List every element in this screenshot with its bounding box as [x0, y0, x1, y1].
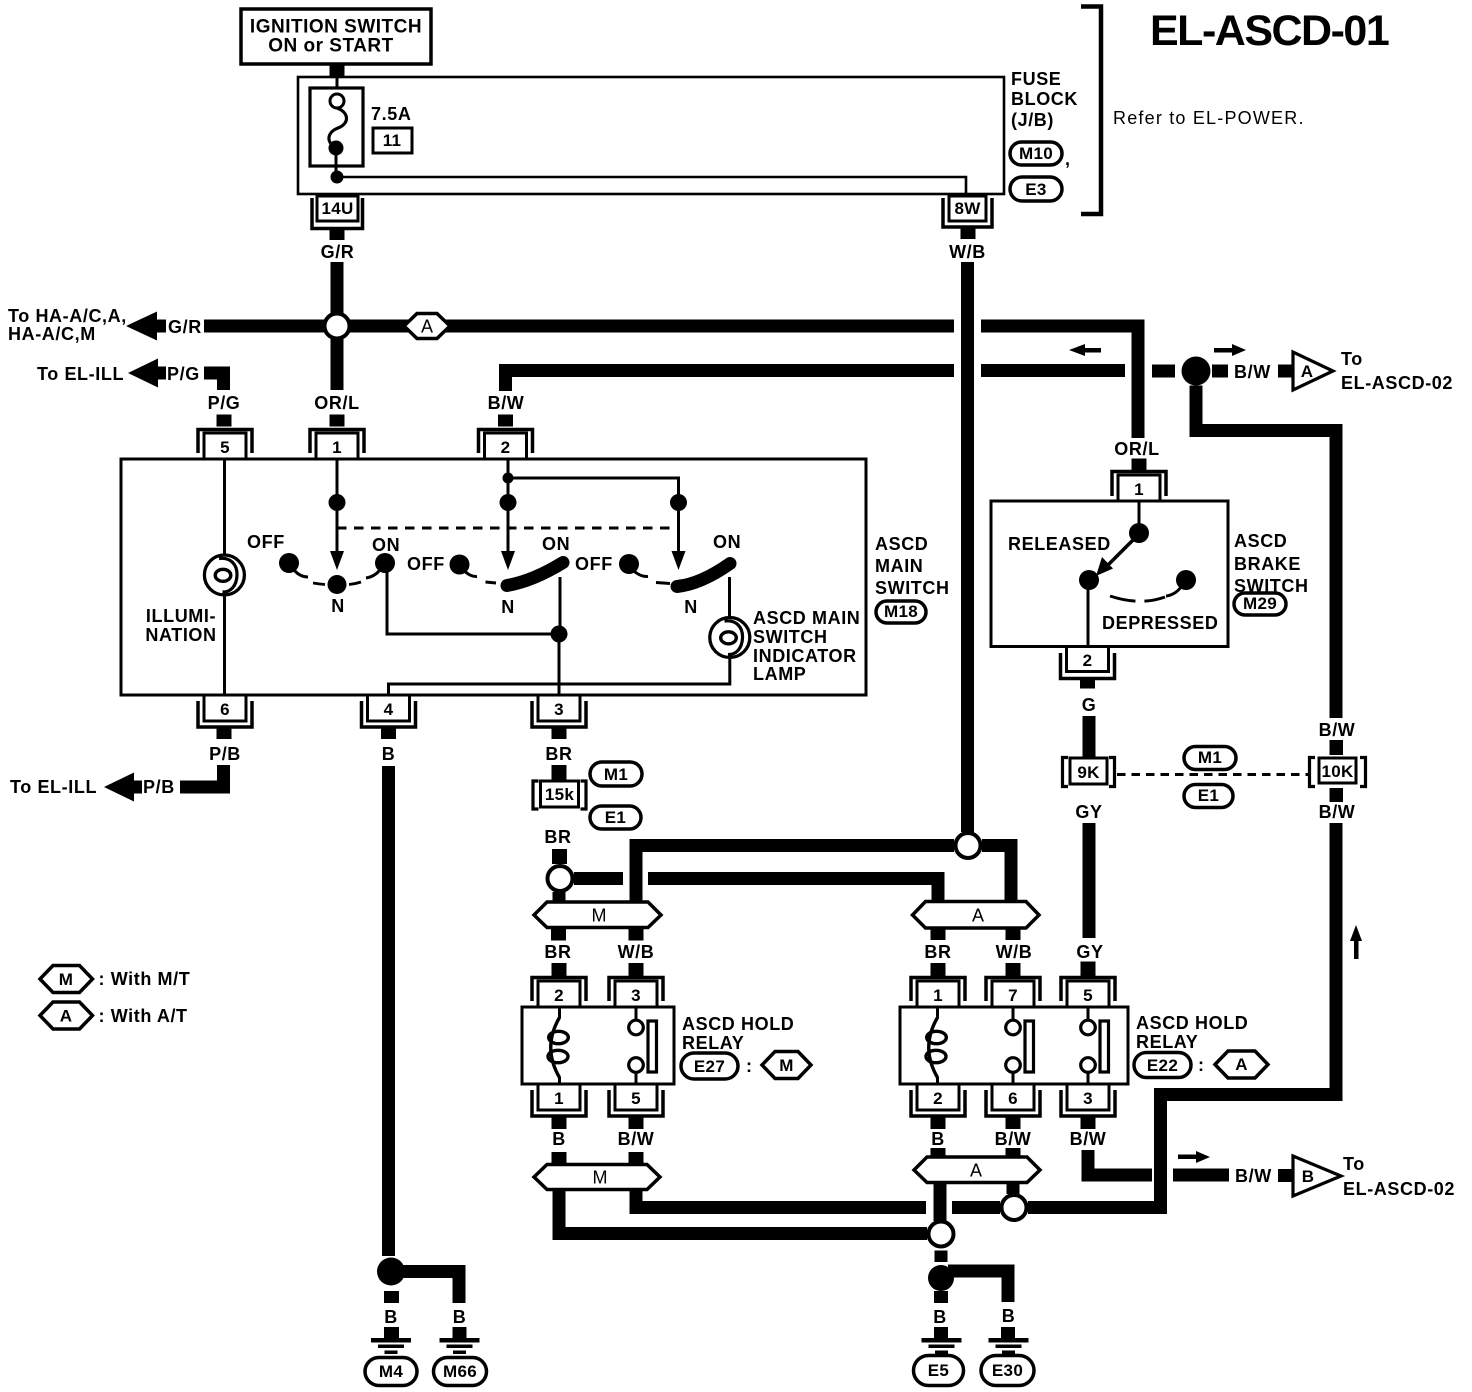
ASCD brake switch box: [991, 501, 1228, 647]
svg-text:BR: BR: [544, 942, 571, 962]
svg-text:3: 3: [631, 986, 641, 1005]
svg-text:G/R: G/R: [321, 242, 355, 262]
dashed line 9K to 10K: [1117, 773, 1308, 776]
svg-text:FUSE: FUSE: [1011, 69, 1061, 89]
connector M1 oval right: [1184, 747, 1236, 770]
arrow right lower: [1178, 1151, 1210, 1163]
connector 9K: [1063, 758, 1115, 787]
label ASCD BRAKE SWITCH: [1234, 531, 1309, 596]
connector M29 oval: [1234, 593, 1286, 615]
connector pin 6 main switch: [198, 695, 252, 739]
svg-text:ASCD: ASCD: [1234, 531, 1287, 551]
svg-text:DEPRESSED: DEPRESSED: [1102, 613, 1218, 633]
ground M4: [371, 1327, 411, 1354]
junction circle G/R: [325, 314, 350, 339]
svg-text:BR: BR: [545, 744, 572, 764]
svg-text:To: To: [1343, 1154, 1365, 1174]
fuse block label: [1011, 69, 1078, 130]
ground E30: [989, 1327, 1029, 1354]
connector E22 oval: [1134, 1053, 1205, 1078]
svg-text:A: A: [1235, 1055, 1248, 1074]
wire BR stub to E27 pin 2: [552, 963, 567, 976]
svg-text:6: 6: [1008, 1089, 1018, 1108]
svg-text:1: 1: [933, 986, 943, 1005]
svg-text:BRAKE: BRAKE: [1234, 554, 1301, 574]
connector M66 oval: [434, 1358, 487, 1386]
svg-text:M29: M29: [1243, 594, 1277, 613]
svg-text:B/W: B/W: [1319, 802, 1356, 822]
wire W/B vertical from 8W: [961, 262, 974, 832]
connector E27 oval: [681, 1053, 753, 1079]
svg-text:W/B: W/B: [949, 242, 986, 262]
connector pin 5 relay E22: [1061, 978, 1115, 1008]
connector pin 5 main switch: [198, 415, 252, 460]
connector E1 oval left: [590, 806, 641, 829]
label To EL-ASCD-02 top: [1341, 349, 1453, 393]
svg-text:E27: E27: [694, 1057, 725, 1076]
svg-text:W/B: W/B: [618, 942, 655, 962]
wire GY down: [1083, 823, 1096, 938]
svg-text:M1: M1: [1198, 748, 1222, 767]
stub below E5 dot: [934, 1291, 948, 1303]
svg-text:B/W: B/W: [1234, 362, 1271, 382]
svg-text:E3: E3: [1025, 180, 1046, 199]
relay E27 coil: [548, 1007, 568, 1084]
wire B/W from A hexagon: [1007, 1183, 1020, 1195]
svg-text:1: 1: [332, 438, 342, 457]
connector pin 2 relay E27: [532, 978, 586, 1008]
svg-text:2: 2: [933, 1089, 943, 1108]
svg-text:E1: E1: [605, 808, 626, 827]
wire GY stub to E22 pin 5: [1081, 962, 1096, 977]
svg-text:HA-A/C,M: HA-A/C,M: [8, 324, 96, 344]
svg-text:B: B: [1302, 1167, 1315, 1186]
svg-text:5: 5: [1083, 986, 1093, 1005]
svg-text:M18: M18: [884, 602, 918, 621]
hexagon A small E22: [1215, 1051, 1268, 1078]
svg-text:E22: E22: [1147, 1056, 1178, 1075]
relay E22 coil: [926, 1007, 946, 1084]
svg-text:EL-ASCD-02: EL-ASCD-02: [1341, 373, 1453, 393]
arrow to EL-ILL P/G: [128, 359, 166, 388]
connector M18 oval: [876, 601, 926, 623]
wire inside fuse block to 8W: [337, 177, 966, 194]
svg-text:ON: ON: [542, 534, 570, 554]
ASCD main switch indicator lamp: [710, 577, 750, 658]
hexagon A lower: [914, 1157, 1040, 1183]
connector pin 1 brake switch: [1112, 459, 1166, 502]
wire BR circle to M hexagon: [553, 892, 566, 902]
svg-text:N: N: [684, 597, 698, 617]
wire branch to E30: [948, 1271, 1008, 1302]
svg-text:SWITCH: SWITCH: [875, 578, 950, 598]
connector 14U: [312, 196, 363, 240]
svg-text:Refer to EL-POWER.: Refer to EL-POWER.: [1113, 108, 1305, 128]
wire B/W stub above A hexagon lower: [1006, 1148, 1021, 1157]
connector 8W: [943, 196, 992, 239]
svg-text:GY: GY: [1076, 942, 1103, 962]
wire W/B stub to E22 pin 7: [1006, 963, 1021, 976]
svg-text:10K: 10K: [1321, 762, 1354, 781]
label illumination: [145, 606, 216, 645]
wire B stub above A hexagon lower: [931, 1148, 946, 1157]
svg-text::: :: [746, 1056, 753, 1076]
legend hexagon M: [40, 966, 93, 993]
connector pin 2 main switch: [479, 415, 533, 460]
svg-text:A: A: [972, 906, 984, 926]
wire stub to A triangle: [1278, 365, 1293, 378]
svg-text::: :: [1198, 1055, 1205, 1075]
svg-text:G: G: [1082, 695, 1097, 715]
dashed link line: [337, 527, 679, 530]
wire W/B stub to E27 pin 3: [629, 963, 644, 976]
svg-text:EL-ASCD-02: EL-ASCD-02: [1343, 1179, 1455, 1199]
switch 1 common wire: [329, 459, 346, 570]
svg-text:7: 7: [1008, 986, 1018, 1005]
svg-text:OFF: OFF: [407, 554, 445, 574]
svg-text:To EL-ILL: To EL-ILL: [10, 777, 97, 797]
svg-text:M: M: [59, 970, 73, 989]
ground E5: [922, 1327, 962, 1354]
svg-text:OFF: OFF: [247, 532, 285, 552]
wire G to 9K: [1083, 716, 1096, 757]
connector pin 1 main switch: [310, 415, 364, 460]
connector pin 3 relay E27: [609, 978, 663, 1008]
svg-text:B: B: [552, 1129, 566, 1149]
svg-text:14U: 14U: [321, 199, 353, 218]
svg-text:A: A: [1301, 362, 1314, 381]
svg-text:M: M: [592, 906, 607, 926]
svg-text:M4: M4: [379, 1362, 403, 1381]
svg-text:SWITCH: SWITCH: [753, 627, 828, 647]
connector pin 7 relay E22: [986, 978, 1040, 1008]
svg-text:: With M/T: : With M/T: [99, 969, 191, 989]
connector 15k: [533, 781, 586, 809]
svg-text:5: 5: [631, 1089, 641, 1108]
wire B from A hexagon: [934, 1183, 947, 1222]
svg-text:9K: 9K: [1077, 763, 1100, 782]
svg-text:8W: 8W: [954, 199, 981, 218]
svg-text:RELAY: RELAY: [682, 1033, 744, 1053]
wire ignition to fuse block: [330, 64, 345, 76]
fuse 7.5A box: [310, 77, 411, 172]
wire switch1 ON to junction: [387, 568, 552, 634]
switch 2 OFF contact: [407, 554, 477, 577]
svg-text:7.5A: 7.5A: [371, 104, 411, 124]
wire W/B stub below M hexagon: [629, 928, 644, 941]
junction circle B lower: [929, 1222, 954, 1247]
svg-text:BR: BR: [544, 827, 571, 847]
arrow to HA-A/C: [126, 312, 166, 341]
triangle A to EL-ASCD-02: [1293, 352, 1333, 390]
svg-text:To HA-A/C,A,: To HA-A/C,A,: [8, 306, 127, 326]
label ASCD HOLD RELAY E27: [682, 1014, 794, 1053]
junction dot B E5: [928, 1265, 954, 1291]
triangle B to EL-ASCD-02: [1293, 1156, 1341, 1196]
svg-text:P/B: P/B: [143, 777, 175, 797]
fuse number 11 box: [373, 128, 412, 153]
svg-text:ASCD HOLD: ASCD HOLD: [682, 1014, 794, 1034]
connector 10K: [1310, 740, 1366, 802]
svg-text:1: 1: [1134, 480, 1144, 499]
svg-text:RELEASED: RELEASED: [1008, 534, 1111, 554]
connector pin 1 relay E22: [911, 978, 965, 1008]
svg-text:A: A: [421, 317, 433, 337]
switch 3 OFF contact: [575, 554, 648, 577]
hexagon A on G/R wire: [404, 314, 450, 339]
label To EL-ASCD-02 bottom: [1343, 1154, 1455, 1199]
svg-text:B/W: B/W: [488, 393, 525, 413]
junction dot B/W: [1182, 357, 1211, 386]
svg-text:M: M: [779, 1056, 793, 1075]
svg-text:OFF: OFF: [575, 554, 613, 574]
wire W/B stub below A hexagon: [1006, 928, 1021, 940]
svg-text:B: B: [933, 1307, 947, 1327]
relay E27 contact: [629, 1007, 657, 1084]
svg-text:B/W: B/W: [1070, 1129, 1107, 1149]
relay E27 box: [522, 1007, 674, 1084]
wire OR/L corner down to brake switch: [1138, 326, 1145, 438]
svg-text:G/R: G/R: [168, 317, 202, 337]
title EL-ASCD-01: [1150, 7, 1389, 55]
brake switch common contact: [1129, 501, 1149, 543]
label ASCD MAIN SWITCH: [875, 534, 950, 598]
switch 3 N and wiper ON: [656, 532, 741, 617]
junction dot B M4: [377, 1258, 405, 1286]
connector M1 oval left: [590, 762, 642, 786]
relay E22 box: [900, 1007, 1128, 1084]
switch 1 OFF contact: [247, 532, 308, 577]
svg-text:IGNITION SWITCH: IGNITION SWITCH: [250, 17, 422, 38]
switch 1 ON contact: [366, 535, 400, 578]
switch 2 N and wiper ON: [486, 534, 571, 617]
svg-text:To: To: [1341, 349, 1363, 369]
svg-text:P/G: P/G: [167, 364, 200, 384]
svg-text:E30: E30: [992, 1361, 1023, 1380]
wire B/W stub above M hexagon lower: [629, 1152, 644, 1165]
wire B from M hexagon: [559, 1190, 927, 1234]
connector E30 oval: [981, 1356, 1034, 1386]
svg-text:2: 2: [501, 438, 511, 457]
connector pin 3 main switch: [532, 695, 586, 739]
hexagon A upper: [913, 902, 1040, 929]
wire P/B to EL-ILL: [180, 765, 230, 787]
connector M10 oval: [1010, 142, 1071, 169]
svg-text:B/W: B/W: [618, 1129, 655, 1149]
svg-text:B/W: B/W: [995, 1129, 1032, 1149]
ignition switch box: [241, 9, 431, 64]
svg-text:4: 4: [384, 700, 394, 719]
wire G/R vertical from 14U: [331, 262, 344, 316]
svg-text:5: 5: [220, 438, 230, 457]
connector pin 3 relay E22 bottom: [1061, 1084, 1115, 1129]
svg-text:B: B: [384, 1307, 398, 1327]
wire B from pin 4 down: [382, 766, 395, 1256]
svg-text:ASCD HOLD: ASCD HOLD: [1136, 1013, 1248, 1033]
svg-text:ON or START: ON or START: [268, 36, 393, 57]
svg-text:GY: GY: [1075, 802, 1102, 822]
label indicator lamp: [753, 608, 860, 684]
wire branch to M66: [399, 1272, 459, 1304]
svg-text:BR: BR: [924, 942, 951, 962]
relay E22 contact 1: [1006, 1007, 1034, 1084]
svg-text:P/G: P/G: [208, 393, 241, 413]
wire B/W dash right of dot: [1212, 365, 1228, 378]
svg-text:B: B: [382, 744, 396, 764]
svg-text:B: B: [931, 1129, 945, 1149]
hexagon M lower: [534, 1165, 660, 1190]
svg-text:M: M: [593, 1168, 608, 1188]
svg-text:M1: M1: [604, 765, 628, 784]
switch 2 common wire: [500, 459, 517, 570]
wire BR 15k path: [552, 765, 567, 780]
svg-text:N: N: [501, 597, 515, 617]
junction circle W/B: [956, 833, 981, 858]
connector M4 oval: [365, 1358, 417, 1386]
svg-text:ASCD: ASCD: [875, 534, 928, 554]
label ASCD HOLD RELAY E22: [1136, 1013, 1248, 1052]
connector pin 2 brake switch: [1061, 647, 1115, 689]
svg-text:A: A: [60, 1007, 73, 1026]
svg-text:W/B: W/B: [996, 942, 1033, 962]
svg-text:,: ,: [1065, 149, 1071, 169]
wire G/R horizontal main: [204, 320, 1145, 333]
illumination lamp: [204, 459, 244, 695]
connector E5 oval: [914, 1356, 964, 1386]
svg-text:ON: ON: [372, 535, 400, 555]
wire W/B horizontal: [636, 846, 1011, 903]
wire B/W E22 pin3 to EL-ASCD-02: [1088, 1150, 1229, 1175]
hexagon M upper: [534, 902, 661, 928]
junction circle BR: [548, 866, 573, 891]
svg-text:E5: E5: [928, 1361, 949, 1380]
svg-text:11: 11: [383, 131, 402, 150]
svg-text:RELAY: RELAY: [1136, 1032, 1198, 1052]
svg-text:M10: M10: [1019, 144, 1053, 163]
wire B/W from M hexagon: [636, 1190, 1000, 1208]
svg-text:(J/B): (J/B): [1011, 110, 1054, 130]
wire BR stub below A hexagon: [931, 928, 946, 940]
svg-text:P/B: P/B: [209, 744, 241, 764]
wire junction to pin 3: [558, 634, 561, 695]
svg-text:M66: M66: [443, 1362, 477, 1381]
arrow left on B/W wire: [1069, 344, 1101, 356]
wire BR stub to junction: [552, 849, 567, 864]
svg-text:B/W: B/W: [1235, 1166, 1272, 1186]
svg-text:ON: ON: [713, 532, 741, 552]
wire B/W dash left of dot: [1152, 365, 1175, 378]
wire BR horizontal: [574, 879, 938, 902]
wire stub to B triangle: [1278, 1169, 1292, 1182]
legend hexagon A: [40, 1002, 93, 1029]
wire BR stub below M hexagon: [551, 928, 566, 941]
wire B/W from dot down to right vertical: [1196, 386, 1336, 719]
svg-text:NATION: NATION: [145, 625, 216, 645]
svg-text:3: 3: [1083, 1089, 1093, 1108]
svg-text:To EL-ILL: To EL-ILL: [37, 364, 124, 384]
wire B/W right vertical: [1028, 823, 1336, 1208]
wire B circle to dot E5: [935, 1251, 948, 1263]
svg-text:MAIN: MAIN: [875, 556, 923, 576]
wire switch2 ON down: [559, 577, 562, 634]
svg-text:2: 2: [1083, 651, 1093, 670]
svg-text:15k: 15k: [545, 785, 575, 804]
wire OR/L down to main switch pin 1: [331, 339, 344, 390]
svg-text:ILLUMI-: ILLUMI-: [146, 606, 216, 626]
wire B stub above M hexagon lower: [552, 1152, 567, 1165]
fuse block box: [298, 77, 1004, 194]
brake switch depressed contact: [1166, 570, 1196, 596]
junction circle B/W lower: [1002, 1195, 1027, 1220]
brake switch moving contact arrow: [1096, 538, 1135, 576]
stub below M4 dot: [384, 1291, 399, 1303]
switch 1 N contact: [313, 575, 361, 616]
svg-text:BLOCK: BLOCK: [1011, 89, 1078, 109]
connector pin 1 relay E27 bottom: [532, 1084, 586, 1129]
svg-text:1: 1: [554, 1089, 564, 1108]
svg-text:6: 6: [220, 700, 230, 719]
svg-text:B: B: [1002, 1306, 1016, 1326]
svg-text:B: B: [453, 1307, 467, 1327]
ASCD main switch box: [121, 459, 866, 695]
relay E22 contact 2: [1081, 1007, 1109, 1084]
svg-text:A: A: [970, 1161, 982, 1181]
connector pin 4 main switch: [362, 695, 416, 739]
wire P/G corner: [204, 373, 224, 390]
arrow up beside B/W wire: [1350, 925, 1362, 959]
arrow right on B/W wire: [1214, 344, 1246, 356]
svg-text:: With A/T: : With A/T: [99, 1006, 188, 1026]
svg-text:N: N: [331, 596, 345, 616]
wire B/W from pin 2 corner: [506, 371, 1126, 392]
svg-text:OR/L: OR/L: [1114, 439, 1159, 459]
connector pin 5 relay E27 bottom: [609, 1084, 663, 1129]
svg-text:E1: E1: [1198, 786, 1219, 805]
connector E3 oval: [1010, 177, 1062, 201]
svg-text:LAMP: LAMP: [753, 664, 806, 684]
connector E1 oval right: [1184, 785, 1233, 808]
junction below fuse: [331, 171, 344, 184]
wire lamp to pin 4: [389, 655, 730, 695]
arrow to EL-ILL P/B: [104, 773, 142, 802]
connector pin 6 relay E22 bottom: [986, 1084, 1040, 1129]
fuse block label bracket: [1081, 7, 1101, 215]
brake switch travel arc: [1110, 596, 1165, 601]
svg-text:2: 2: [554, 986, 564, 1005]
svg-text:EL-ASCD-01: EL-ASCD-01: [1150, 7, 1389, 55]
svg-text:ASCD MAIN: ASCD MAIN: [753, 608, 860, 628]
junction dot switch outputs: [551, 626, 568, 643]
hexagon M small E27: [762, 1052, 811, 1079]
label To HA-A/C,A, HA-A/C,M: [8, 306, 127, 344]
switch 3 common wire: [670, 494, 687, 570]
connector pin 2 relay E22 bottom: [911, 1084, 965, 1129]
ground M66: [440, 1327, 480, 1354]
svg-text:INDICATOR: INDICATOR: [753, 646, 857, 666]
svg-text:B/W: B/W: [1319, 720, 1356, 740]
wire BR stub to E22 pin 1: [931, 963, 946, 976]
svg-text:3: 3: [554, 700, 564, 719]
wire to switch 3: [508, 478, 679, 495]
brake switch released contact: [1079, 570, 1099, 647]
svg-text:OR/L: OR/L: [314, 393, 359, 413]
